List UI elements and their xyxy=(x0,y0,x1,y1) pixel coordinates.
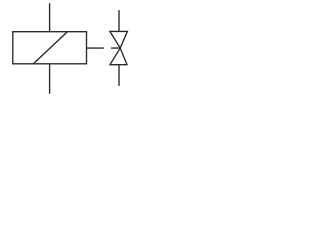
wire top lead of valve xyxy=(118,10,120,31)
wire stub into valve stem xyxy=(111,47,120,49)
wire bottom lead of solenoid xyxy=(49,64,51,94)
wire top lead of solenoid xyxy=(49,3,51,31)
valve V1 lower triangle xyxy=(110,48,127,65)
solenoid diagonal stroke xyxy=(33,32,67,64)
valve V1 upper triangle xyxy=(110,31,128,48)
wire from solenoid to valve (left segment) xyxy=(87,47,104,49)
solenoid coil K1 (rectangle body) xyxy=(13,32,87,64)
wire bottom lead of valve xyxy=(118,65,120,86)
